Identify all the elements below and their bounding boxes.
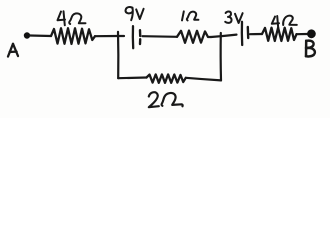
label 4Ω xyxy=(58,11,86,25)
wire xyxy=(143,35,178,38)
wire xyxy=(95,35,124,37)
resistor R1 4Ω xyxy=(51,28,95,44)
wire (right branch vertical) xyxy=(220,33,223,80)
wire (bottom left) xyxy=(118,76,146,79)
wire xyxy=(30,34,51,37)
label B xyxy=(306,41,315,57)
node B xyxy=(307,29,316,38)
label 3V xyxy=(225,11,242,23)
label 9V xyxy=(126,7,144,20)
label 2Ω xyxy=(149,92,183,107)
battery 9V short plate xyxy=(139,30,142,44)
resistor R3 4Ω xyxy=(262,28,297,41)
wire xyxy=(297,33,308,35)
wire (left branch vertical) xyxy=(117,32,120,78)
label 4Ω xyxy=(272,16,297,28)
wire xyxy=(211,35,237,37)
battery 3V long plate xyxy=(241,22,244,45)
label 1Ω xyxy=(182,11,198,20)
label A xyxy=(8,44,18,57)
resistor R2 1Ω xyxy=(177,31,211,43)
node A xyxy=(24,32,30,38)
wire xyxy=(250,33,262,35)
wire (bottom right) xyxy=(186,78,221,81)
resistor R4 2Ω xyxy=(147,74,186,82)
battery 3V short plate xyxy=(247,27,250,38)
battery 9V long plate xyxy=(132,26,135,48)
